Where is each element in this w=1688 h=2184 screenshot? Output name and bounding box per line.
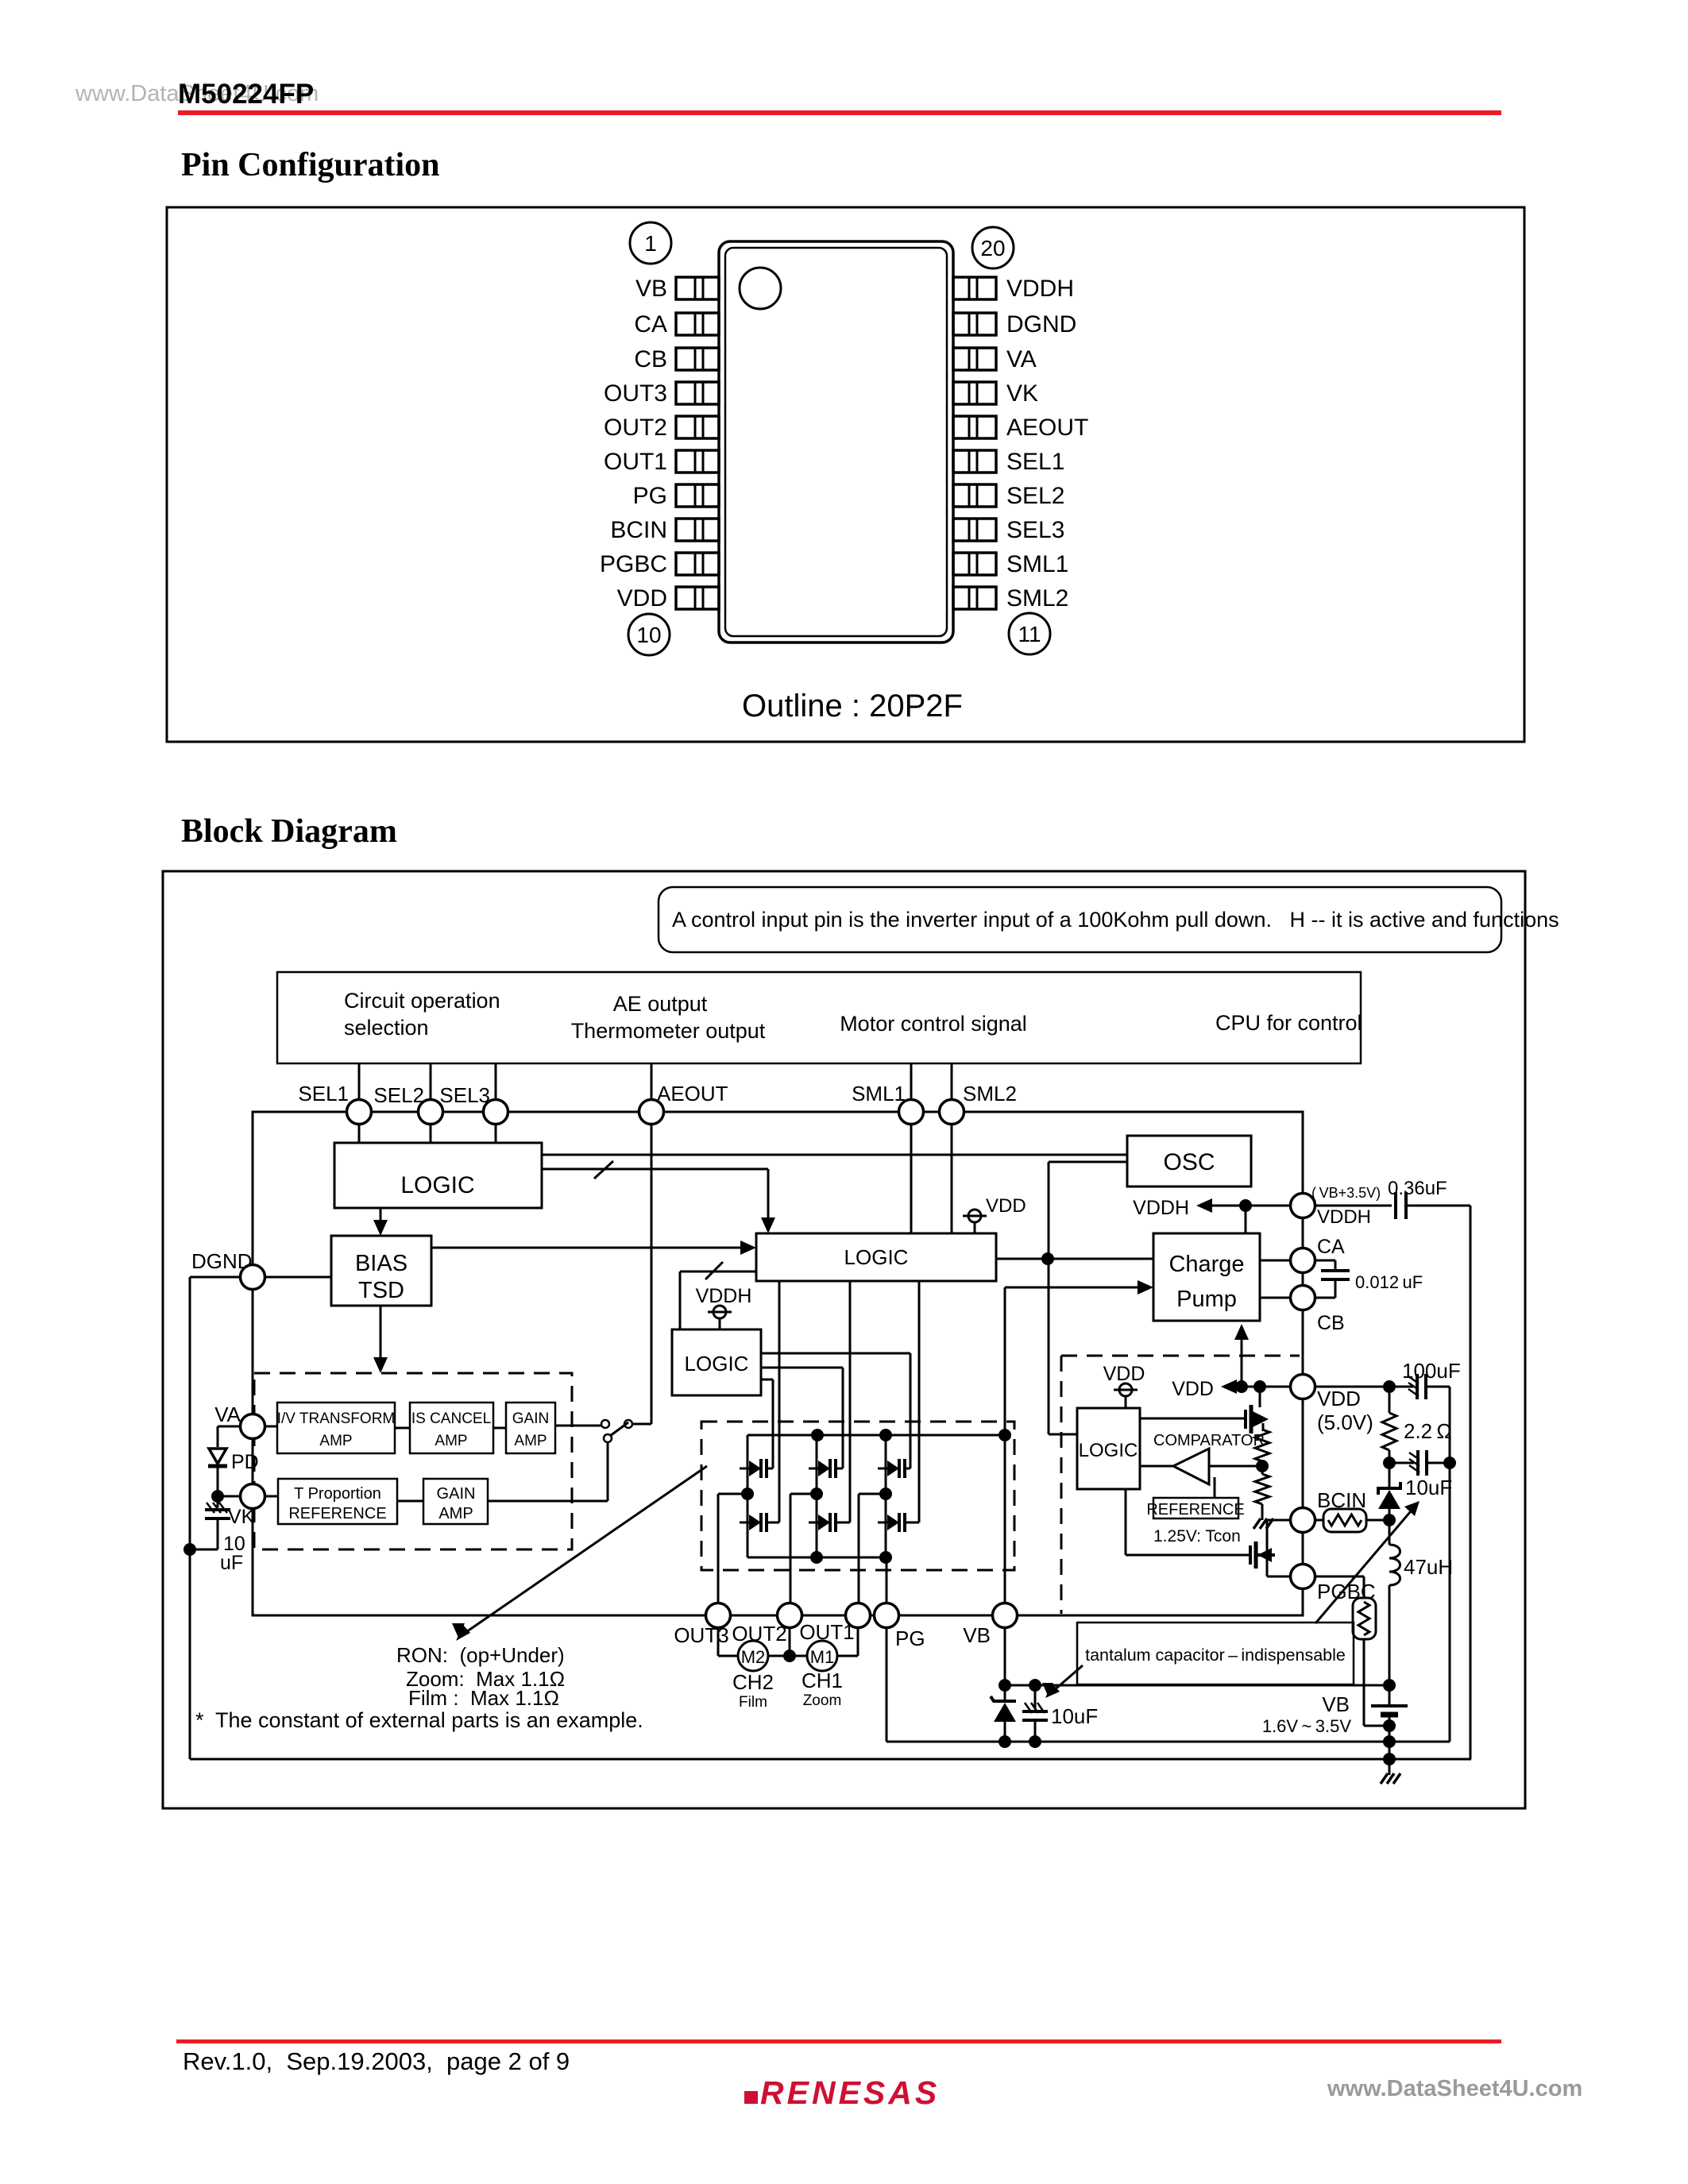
wire OUT2 — [790, 1493, 817, 1495]
capacitor 10uF VK — [217, 1496, 219, 1507]
svg-text:RENESAS: RENESAS — [760, 2074, 940, 2111]
svg-text:I/V TRANSFORM: I/V TRANSFORM — [277, 1410, 396, 1427]
pin number 10 — [628, 614, 670, 655]
svg-text:1.25V: Tcon: 1.25V: Tcon — [1153, 1527, 1241, 1545]
pin 1 VB — [635, 276, 719, 302]
right side dashed box — [1061, 1355, 1300, 1357]
svg-text:Outline : 20P2F: Outline : 20P2F — [742, 689, 963, 723]
wire DGND to bias — [264, 1276, 331, 1279]
svg-text:VA: VA — [1006, 346, 1037, 372]
junction out3 node — [741, 1488, 754, 1500]
svg-text:TSD: TSD — [358, 1278, 404, 1303]
svg-text:GAIN: GAIN — [437, 1485, 476, 1503]
node OUT3 — [706, 1603, 731, 1628]
svg-text:SEL1: SEL1 — [298, 1082, 349, 1106]
svg-text:selection: selection — [344, 1016, 429, 1040]
pin 14 SEL2 — [953, 483, 1064, 509]
svg-text:VDDH: VDDH — [1133, 1197, 1189, 1219]
wire DGND rail left — [190, 1276, 241, 1279]
svg-text:M1: M1 — [810, 1647, 835, 1667]
svg-text:(5.0V): (5.0V) — [1317, 1410, 1373, 1434]
wire vddh to cp — [1245, 1206, 1247, 1233]
power tap VDD main logic — [968, 1210, 981, 1222]
wire vddh pin left — [1209, 1205, 1292, 1207]
pin configuration frame — [167, 207, 1524, 742]
resistor 2.2ohm — [1389, 1387, 1391, 1413]
svg-text:BCIN: BCIN — [610, 517, 667, 543]
svg-text:VDDH: VDDH — [696, 1285, 752, 1307]
svg-text:PGBC: PGBC — [1317, 1580, 1376, 1603]
svg-text:M50224FP: M50224FP — [178, 79, 314, 110]
pin 3 CB — [634, 346, 719, 372]
wire VA to amp — [264, 1426, 277, 1428]
svg-text:GAIN: GAIN — [512, 1410, 549, 1427]
junction osc net — [1041, 1252, 1054, 1265]
transistor Q3 high-side — [878, 1459, 910, 1478]
capacitor 10uF low — [1034, 1685, 1037, 1709]
svg-text:LOGIC: LOGIC — [685, 1352, 749, 1376]
wire M1 to OUT1 — [837, 1655, 858, 1657]
wire M2 to M1 — [768, 1655, 807, 1657]
wire SEL2 stub — [430, 1063, 432, 1112]
gain amp block 1 — [506, 1403, 555, 1453]
node VK — [241, 1484, 265, 1509]
charge pump block — [1153, 1233, 1260, 1321]
svg-text:Pump: Pump — [1176, 1287, 1237, 1312]
svg-text:uF: uF — [220, 1552, 243, 1574]
red header rule — [178, 110, 1501, 115]
svg-text:REFERENCE: REFERENCE — [288, 1505, 386, 1522]
wire OUT2 to motors — [789, 1626, 791, 1656]
junction rail T3 — [879, 1429, 892, 1441]
pin 5 OUT2 — [604, 415, 719, 441]
wire gate B1 — [778, 1281, 781, 1522]
wire SML1 stub — [910, 1063, 913, 1112]
resistor BCIN external — [1314, 1519, 1323, 1522]
ron annotation arrow — [462, 1466, 707, 1635]
junction battery mid — [1383, 1735, 1396, 1748]
pin-1 dimple — [740, 268, 781, 309]
junction battery minus — [1383, 1719, 1396, 1732]
IC boundary box — [253, 1112, 1303, 1615]
wire SML1 into logic — [910, 1123, 913, 1233]
junction vddh — [1239, 1199, 1252, 1212]
junction battery top — [1383, 1679, 1396, 1692]
wire gain2 to switch — [488, 1500, 608, 1503]
wire VB net — [1004, 1287, 1006, 1604]
bus slash mark 2 — [705, 1262, 723, 1279]
pin 17 VK — [953, 380, 1038, 407]
wire VK to tprop — [264, 1495, 278, 1498]
wire logic to bias arrow — [380, 1208, 382, 1231]
svg-text:Film: Film — [739, 1694, 767, 1711]
svg-text:VDDH: VDDH — [1006, 276, 1074, 302]
svg-text:VK: VK — [228, 1506, 255, 1528]
svg-text:T Proportion: T Proportion — [294, 1485, 381, 1503]
junction zener top — [999, 1679, 1011, 1692]
vddh logic block U3 — [672, 1329, 761, 1395]
svg-text:11: 11 — [1018, 622, 1041, 646]
junction cap2 bottom — [1029, 1735, 1041, 1748]
mosfet Q8 — [1250, 1542, 1275, 1569]
svg-text:SML1: SML1 — [1006, 551, 1068, 577]
svg-text:AMP: AMP — [514, 1433, 547, 1449]
wire VA to diode — [218, 1426, 241, 1428]
wire AEOUT stub — [651, 1063, 653, 1112]
comparator U4 — [1173, 1449, 1209, 1484]
transistor Q2 high-side — [809, 1459, 843, 1478]
node OUT1 — [846, 1603, 871, 1628]
wire comp out — [1140, 1465, 1173, 1468]
svg-text:Motor control signal: Motor control signal — [840, 1012, 1027, 1036]
svg-text:A control input pin is the inv: A control input pin is the inverter inpu… — [672, 908, 1559, 932]
resistor R2 — [1255, 1474, 1269, 1504]
pin 20 VDDH — [953, 276, 1074, 302]
wire vdd to 100uF — [1314, 1386, 1413, 1388]
node SEL1 — [347, 1100, 372, 1125]
pin 8 BCIN — [610, 517, 719, 543]
wire cp to CB — [1260, 1297, 1292, 1299]
junction out1 node — [879, 1488, 892, 1500]
svg-text:PD: PD — [231, 1451, 259, 1473]
reference block — [1153, 1498, 1238, 1518]
wire pgbc external — [1314, 1576, 1364, 1578]
node SML2 — [940, 1100, 964, 1125]
wire gate B3 — [918, 1281, 921, 1522]
junction vdd fet — [1253, 1380, 1266, 1393]
junction ground — [1383, 1753, 1396, 1765]
pin 10 VDD — [617, 585, 719, 612]
svg-text:SML1: SML1 — [852, 1082, 906, 1106]
note box: control input description — [659, 887, 1501, 952]
svg-text:OUT2: OUT2 — [604, 415, 667, 441]
wire SEL1 stub — [358, 1063, 361, 1112]
svg-text:AEOUT: AEOUT — [1006, 415, 1088, 441]
pin 11 SML2 — [953, 585, 1068, 612]
svg-text:AEOUT: AEOUT — [657, 1082, 728, 1106]
wire 100uF to right — [1427, 1386, 1450, 1388]
svg-text:VB: VB — [635, 276, 667, 302]
svg-text:VDD: VDD — [1317, 1387, 1361, 1410]
svg-text:* The constant of external pa: * The constant of external parts is an e… — [195, 1708, 643, 1732]
wire PG — [886, 1557, 888, 1604]
svg-text:CA: CA — [634, 311, 667, 338]
svg-text:Zoom: Zoom — [803, 1692, 842, 1709]
svg-text:DGND: DGND — [191, 1249, 253, 1273]
wire bias to amps arrow — [380, 1306, 382, 1368]
wire pg rail — [886, 1626, 888, 1742]
svg-text:OUT3: OUT3 — [674, 1623, 728, 1647]
junction comparator node — [1256, 1460, 1269, 1472]
svg-text:Rev.1.0, Sep.19.2003, page 2: Rev.1.0, Sep.19.2003, page 2 of 9 — [183, 2047, 570, 2075]
amplifier dashed box — [254, 1373, 572, 1549]
motor M2 — [738, 1641, 768, 1671]
svg-text:1: 1 — [644, 231, 657, 256]
svg-text:SML2: SML2 — [963, 1082, 1017, 1106]
svg-text:CA: CA — [1317, 1236, 1345, 1258]
pin 19 DGND — [953, 311, 1076, 338]
svg-text:VDD: VDD — [1172, 1378, 1214, 1400]
junction vdd cp — [1235, 1380, 1248, 1393]
pin 15 SEL1 — [953, 449, 1064, 475]
svg-text:2.2 Ω: 2.2 Ω — [1404, 1419, 1452, 1443]
renesas logo — [744, 2074, 940, 2111]
transistor Q4 low-side — [740, 1513, 779, 1532]
svg-text:COMPARATOR: COMPARATOR — [1153, 1432, 1265, 1449]
wire SEL2 to logic — [430, 1123, 432, 1143]
pin 2 CA — [634, 311, 719, 338]
wire SML2 stub — [951, 1063, 953, 1112]
svg-text:VDD: VDD — [1103, 1363, 1145, 1385]
svg-text:( VB+3.5V): ( VB+3.5V) — [1311, 1185, 1381, 1201]
node SEL3 — [484, 1100, 508, 1125]
bridge top rail — [747, 1434, 1005, 1437]
resistor PGBC — [1353, 1598, 1376, 1639]
wire switch to aeout — [632, 1423, 651, 1426]
svg-text:10: 10 — [636, 623, 661, 647]
node VK junction — [211, 1490, 224, 1503]
diode D1 schottky — [1378, 1463, 1400, 1520]
pin 9 PGBC — [600, 551, 719, 577]
bus slash mark — [594, 1161, 613, 1179]
inductor 47uH — [1389, 1520, 1400, 1685]
wire logic to main logic — [542, 1168, 768, 1171]
wire to 10uF — [1389, 1462, 1414, 1464]
red footer rule — [176, 2039, 1501, 2043]
arrow to 10uF low — [1053, 1665, 1083, 1692]
logic block U5 — [1077, 1408, 1140, 1489]
pin number 20 — [972, 227, 1014, 268]
wire SEL1 to logic — [358, 1123, 361, 1143]
junction bottom rail PG — [879, 1551, 892, 1564]
svg-text:SEL2: SEL2 — [373, 1083, 424, 1107]
capacitor 0.36uF — [1314, 1205, 1392, 1207]
svg-text:VA: VA — [214, 1403, 241, 1426]
svg-text:20: 20 — [980, 236, 1005, 260]
svg-text:AMP: AMP — [319, 1433, 352, 1449]
junction bcin node — [1383, 1514, 1396, 1526]
svg-text:VDD: VDD — [986, 1195, 1026, 1217]
wire bcin internal — [1267, 1519, 1292, 1522]
mosfet Q7 — [1246, 1387, 1269, 1433]
wire gate T2 — [761, 1367, 843, 1369]
bridge column 3 — [885, 1435, 887, 1557]
wire logic U5 to Q8 — [1125, 1489, 1127, 1555]
svg-text:PG: PG — [633, 483, 667, 509]
logic block U1 — [334, 1143, 542, 1208]
svg-text:BIAS: BIAS — [355, 1251, 408, 1276]
bridge bottom rail — [747, 1557, 886, 1559]
svg-text:1.6V ~ 3.5V: 1.6V ~ 3.5V — [1262, 1716, 1351, 1736]
wire cancel to gain — [493, 1427, 506, 1430]
t proportion reference block — [278, 1479, 397, 1524]
wire gate B2 — [849, 1281, 852, 1522]
CPU control block — [277, 972, 1361, 1063]
bridge column 1 — [747, 1435, 749, 1557]
svg-text:10uF: 10uF — [1051, 1704, 1098, 1728]
arrow to 10uF high — [1315, 1507, 1415, 1623]
svg-text:AE output: AE output — [613, 992, 708, 1016]
wire OUT3 — [718, 1493, 747, 1495]
svg-text:AMP: AMP — [438, 1505, 473, 1522]
svg-text:CB: CB — [1317, 1312, 1345, 1334]
wire gate T1 — [761, 1379, 773, 1381]
pin number 11 — [1009, 613, 1050, 654]
wire to VK pin — [218, 1495, 241, 1498]
junction bottom rail B2 — [810, 1551, 823, 1564]
transistor Q1 high-side — [740, 1459, 773, 1478]
svg-text:CH1: CH1 — [802, 1669, 843, 1692]
wire SML2 into logic — [951, 1123, 953, 1233]
svg-text:47uH: 47uH — [1404, 1555, 1453, 1579]
node VB — [993, 1603, 1018, 1628]
svg-text:0.012 uF: 0.012 uF — [1355, 1272, 1423, 1292]
wire osc loop — [1049, 1161, 1127, 1163]
node PG — [875, 1603, 899, 1628]
svg-text:AMP: AMP — [435, 1433, 467, 1449]
wire vb rail — [1005, 1684, 1389, 1687]
junction 2.2ohm top — [1383, 1380, 1396, 1393]
wire tprop to gain2 — [397, 1500, 423, 1503]
bridge column 2 — [816, 1435, 818, 1557]
wire logic to osc — [542, 1154, 1127, 1156]
photodiode PD — [208, 1449, 259, 1479]
svg-text:OSC: OSC — [1163, 1149, 1215, 1175]
svg-text:Circuit operation: Circuit operation — [344, 989, 500, 1013]
switch SW1 — [601, 1420, 632, 1442]
junction motors — [783, 1650, 796, 1662]
tantalum note box — [1077, 1623, 1354, 1684]
svg-text:VDDH: VDDH — [1317, 1206, 1371, 1228]
junction zener bottom — [999, 1735, 1011, 1748]
pin 4 OUT3 — [604, 380, 719, 407]
power tap VDDH small logic — [713, 1306, 726, 1318]
ground comparator — [1253, 1504, 1273, 1529]
node SML1 — [899, 1100, 924, 1125]
svg-text:LOGIC: LOGIC — [400, 1172, 474, 1198]
svg-text:VK: VK — [1006, 380, 1038, 407]
pin 7 PG — [633, 483, 719, 509]
svg-text:PG: PG — [895, 1626, 925, 1650]
svg-text:CH2: CH2 — [732, 1670, 774, 1694]
wire bias to main logic arrow — [431, 1247, 751, 1249]
svg-text:OUT3: OUT3 — [604, 380, 667, 407]
resistor R1 — [1255, 1430, 1269, 1461]
node OUT2 — [778, 1603, 802, 1628]
wire pgbc internal — [1267, 1576, 1292, 1578]
node AEOUT — [639, 1100, 664, 1125]
svg-text:100uF: 100uF — [1402, 1359, 1461, 1383]
wire SEL3 stub — [495, 1063, 497, 1112]
osc block — [1127, 1136, 1251, 1187]
pin 12 SML1 — [953, 551, 1068, 577]
svg-text:VDD: VDD — [617, 585, 667, 612]
transistor Q6 low-side — [878, 1513, 919, 1532]
svg-text:0.36uF: 0.36uF — [1388, 1178, 1447, 1199]
junction dgnd rail — [183, 1543, 196, 1556]
wire gate T3 — [761, 1352, 910, 1355]
svg-text:VB: VB — [1322, 1692, 1350, 1716]
svg-text:SEL1: SEL1 — [1006, 449, 1064, 475]
svg-text:LOGIC: LOGIC — [1079, 1440, 1138, 1461]
pin 13 SEL3 — [953, 517, 1064, 543]
wire main logic to charge pump — [996, 1258, 1153, 1260]
wire VK cap to dgnd rail — [190, 1549, 218, 1551]
is cancel amp block — [410, 1403, 493, 1453]
svg-text:SML2: SML2 — [1006, 585, 1068, 612]
svg-text:Pin Configuration: Pin Configuration — [181, 147, 440, 183]
pin number 1 — [630, 222, 671, 264]
svg-text:DGND: DGND — [1006, 311, 1076, 338]
svg-text:VB: VB — [963, 1623, 991, 1647]
main logic block U2 — [756, 1233, 996, 1281]
ground symbol main — [1381, 1759, 1400, 1784]
battery VB — [1371, 1685, 1408, 1759]
wire cp to CA — [1260, 1260, 1292, 1262]
svg-text:Film : Max 1.1Ω: Film : Max 1.1Ω — [408, 1686, 559, 1710]
junction 10uF — [1383, 1457, 1396, 1469]
wire OUT3 to motor M2 — [717, 1626, 720, 1656]
wire gain to switch — [555, 1425, 601, 1427]
capacitor 10uF schottky side — [1409, 1450, 1427, 1476]
svg-text:CB: CB — [634, 346, 667, 372]
svg-text:Block Diagram: Block Diagram — [181, 813, 397, 850]
capacitor 0.012uF — [1314, 1260, 1335, 1262]
capacitor 100uF — [1408, 1374, 1426, 1399]
svg-text:www.DataSheet4U.com: www.DataSheet4U.com — [1327, 2076, 1582, 2101]
wire PD to VK node — [217, 1479, 219, 1496]
svg-text:Thermometer output: Thermometer output — [571, 1019, 766, 1043]
block diagram outer frame — [163, 871, 1525, 1808]
wire iv to cancel — [395, 1427, 410, 1430]
bias tsd block — [331, 1236, 431, 1306]
svg-text:M2: M2 — [741, 1647, 766, 1667]
IC package body — [719, 241, 953, 642]
junction out2 node — [810, 1488, 823, 1500]
wire vdd pin left — [1234, 1386, 1292, 1388]
svg-text:10uF: 10uF — [1405, 1476, 1452, 1499]
node SEL2 — [419, 1100, 443, 1125]
junction cap2 top — [1029, 1679, 1041, 1692]
motor M1 — [807, 1641, 837, 1671]
svg-text:REFERENCE: REFERENCE — [1146, 1501, 1244, 1518]
pin 18 VA — [953, 346, 1037, 372]
svg-text:tantalum capacitor – indispens: tantalum capacitor – indispensable — [1085, 1646, 1346, 1665]
ground rail — [190, 1758, 1471, 1761]
wire comp to reference — [1214, 1477, 1216, 1498]
svg-text:CPU for control: CPU for control — [1215, 1011, 1362, 1035]
gain amp block 2 — [423, 1479, 488, 1524]
svg-text:SEL3: SEL3 — [1006, 517, 1064, 543]
svg-text:SEL2: SEL2 — [1006, 483, 1064, 509]
wire OUT1 — [859, 1493, 886, 1495]
svg-text:LOGIC: LOGIC — [844, 1245, 909, 1269]
wire SEL3 to logic — [495, 1123, 497, 1143]
junction right rail — [1443, 1457, 1456, 1469]
iv transform amp block — [277, 1403, 395, 1453]
junction rail VB — [999, 1429, 1011, 1441]
right outer wire — [1470, 1206, 1472, 1759]
pin 6 OUT1 — [604, 449, 719, 475]
svg-text:IS CANCEL: IS CANCEL — [411, 1410, 491, 1427]
zener diode D2 — [991, 1685, 1016, 1742]
wire VB ext — [1004, 1626, 1006, 1685]
wire vdd to cp arrow — [1241, 1329, 1243, 1387]
junction rail T2 — [811, 1429, 824, 1441]
motor bridge dashed box — [701, 1422, 1014, 1570]
svg-text:RON: (op+Under): RON: (op+Under) — [396, 1643, 565, 1667]
power tap VDD logic U5 — [1119, 1383, 1132, 1396]
